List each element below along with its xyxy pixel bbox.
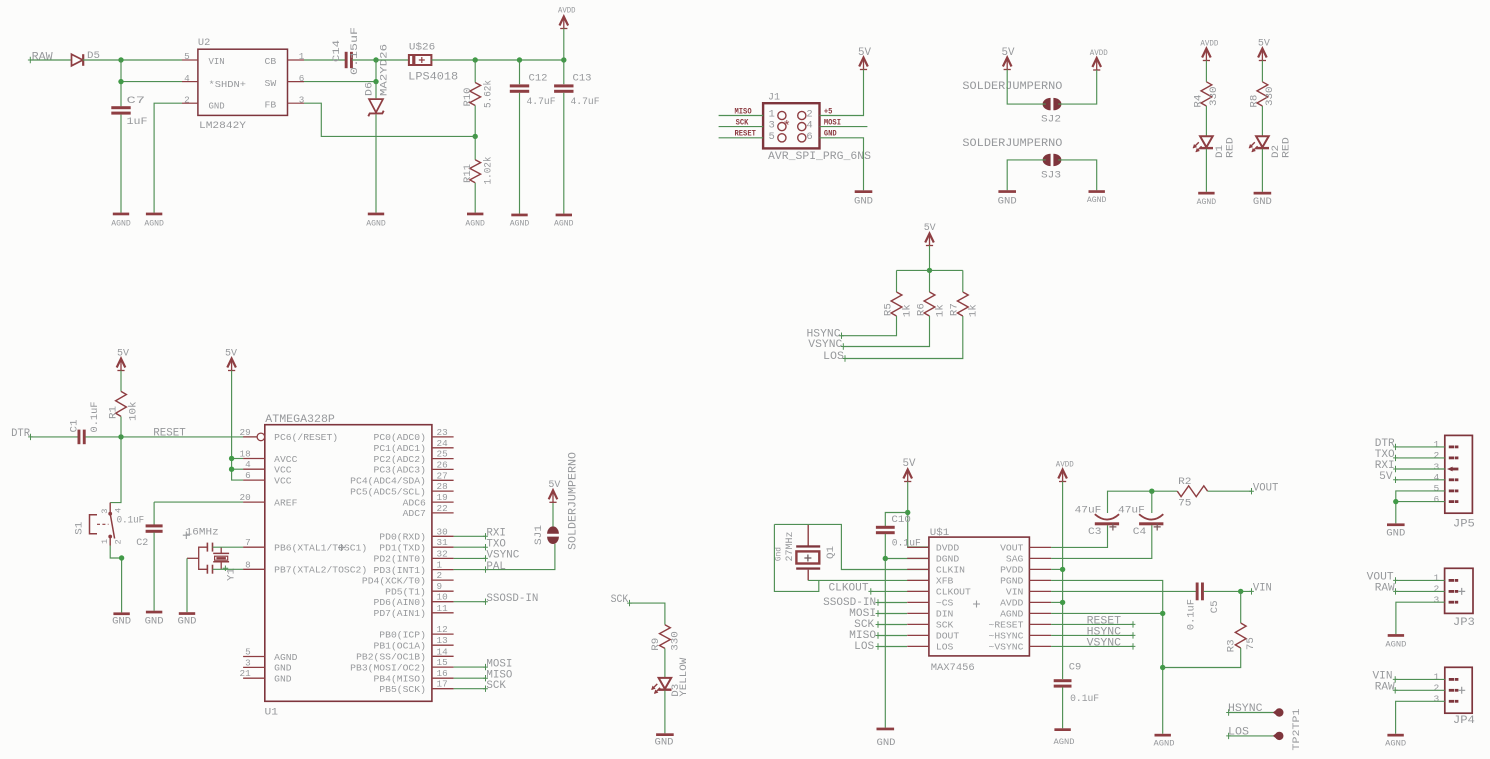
svg-text:1.02k: 1.02k (483, 157, 495, 185)
svg-text:LOS: LOS (936, 642, 954, 653)
svg-text:AGND: AGND (1000, 609, 1024, 620)
U1 pin 11 PD7(AIN1) (432, 612, 454, 614)
resistor R10 5.62k (474, 60, 476, 83)
svg-text:4: 4 (1434, 472, 1440, 483)
resistor R3 75 (1240, 591, 1242, 623)
svg-text:9: 9 (437, 581, 443, 592)
wire AREF to C2 (154, 501, 243, 503)
svg-text:7: 7 (245, 537, 251, 548)
svg-text:R6: R6 (915, 303, 927, 316)
svg-text:GND: GND (998, 196, 1017, 208)
junction DGND node (883, 556, 888, 561)
svg-text:PC5(ADC5/SCL): PC5(ADC5/SCL) (350, 486, 426, 497)
svg-text:AGND: AGND (1385, 739, 1406, 748)
net label SCK at MAX (878, 624, 907, 626)
svg-text:JP5: JP5 (1453, 518, 1475, 530)
svg-text:R10: R10 (462, 88, 474, 107)
JP5 pad 3 (1447, 467, 1453, 472)
svg-text:47uF: 47uF (1118, 505, 1145, 517)
connector JP3 (1445, 568, 1473, 613)
U$1 left pin ~CS (907, 601, 929, 603)
junction PVDD (1060, 567, 1065, 572)
resistor R5 1k (896, 270, 898, 292)
junction at SHDN row (118, 79, 123, 84)
connector JP5 (1445, 435, 1473, 513)
wire HSYNC label row (1051, 634, 1133, 636)
svg-text:0.1uF: 0.1uF (117, 514, 145, 526)
U1 pin 23 PC0(ADC0) (432, 436, 454, 438)
JP5 pad 1 (1449, 446, 1455, 449)
svg-text:VOUT: VOUT (1000, 543, 1024, 554)
capacitor C1 0.1uF (78, 430, 81, 445)
svg-text:4.7uF: 4.7uF (527, 96, 556, 108)
svg-text:SCK: SCK (936, 620, 954, 631)
svg-text:23: 23 (437, 427, 448, 438)
wire Gnd net around Q1 (774, 524, 818, 591)
wire 5V to JP5 pin 4 (1396, 479, 1445, 481)
U$1 left pin XFB (907, 579, 929, 581)
switch S1 wires from RESET node (110, 437, 121, 503)
U1 pin 4 VCC (243, 468, 265, 470)
svg-text:C14: C14 (331, 40, 343, 62)
wire C10 branch (885, 513, 907, 527)
JP3 pad 3 (1449, 601, 1455, 604)
svg-text:19: 19 (437, 492, 448, 503)
svg-text:LOS: LOS (854, 641, 874, 653)
svg-text:VIN: VIN (209, 56, 225, 67)
svg-text:J1: J1 (768, 92, 780, 104)
svg-text:2: 2 (437, 570, 443, 581)
wire TXO to JP5 pin 2 (1396, 457, 1445, 459)
svg-text:0.1uF: 0.1uF (1070, 693, 1099, 705)
svg-text:CB: CB (265, 56, 277, 67)
svg-text:2: 2 (1434, 584, 1440, 595)
svg-text:AGND: AGND (1154, 740, 1175, 749)
svg-text:PAL: PAL (486, 561, 506, 573)
U1 pin 10 PD6(AIN0) (432, 601, 454, 603)
svg-text:R1: R1 (108, 406, 120, 419)
svg-text:R9: R9 (650, 638, 662, 651)
JP5 pad 4 (1449, 478, 1455, 481)
wire SCK to J1 (719, 126, 764, 128)
svg-text:D6: D6 (363, 82, 375, 96)
U1 pin 5 AGND (243, 656, 265, 658)
wire SCK to R9 (630, 603, 665, 625)
svg-text:C7: C7 (127, 95, 146, 107)
svg-text:GND: GND (1386, 528, 1405, 540)
wire SJ3 right to AGND (1058, 160, 1097, 190)
U1 pin 17 PB5(SCK) (432, 688, 454, 690)
U1 pin 31 PD1(TXD) (432, 546, 454, 548)
svg-text:1: 1 (299, 51, 305, 62)
wire C10 to DGND node (885, 534, 929, 559)
svg-text:4: 4 (184, 73, 190, 84)
wire RXI to JP5 pin 3 (1396, 468, 1445, 470)
svg-text:CLKOUT: CLKOUT (829, 583, 869, 595)
svg-text:C9: C9 (1069, 662, 1082, 674)
svg-text:1: 1 (1434, 439, 1440, 450)
U1 pin 20 AREF (243, 501, 265, 503)
wire RAW to JP3 pin 2 (1396, 590, 1445, 592)
svg-text:DGND: DGND (936, 554, 960, 565)
junction at C12 top (517, 57, 522, 62)
svg-text:*: * (783, 120, 791, 135)
resistor R11 1.02k (474, 136, 476, 159)
svg-text:PB5(SCK): PB5(SCK) (379, 684, 426, 695)
U2 pin 5 VIN stub (182, 59, 198, 61)
resistor R7 1k (957, 292, 968, 316)
svg-text:R2: R2 (1178, 476, 1191, 488)
svg-text:3: 3 (245, 657, 251, 668)
svg-text:4: 4 (806, 120, 812, 132)
svg-text:AGND: AGND (1054, 738, 1075, 747)
wire HSYNC to TP2 (1229, 712, 1275, 714)
U$1 left pin SCK (907, 623, 929, 625)
svg-text:SOLDERJUMPERNO: SOLDERJUMPERNO (962, 138, 1062, 150)
ground AGND under U2 GND (146, 213, 162, 216)
ground AGND under D6 (368, 213, 384, 216)
wire LOS to TP1 (1229, 735, 1275, 737)
wire PD3 PAL to SJ1 (454, 544, 555, 570)
JP5 pad 2 (1449, 457, 1455, 460)
wire CB to C14 (304, 59, 346, 61)
svg-text:0.15uF: 0.15uF (349, 27, 361, 75)
svg-text:VCC: VCC (274, 475, 292, 486)
Y1 case pin to GND (187, 557, 199, 559)
svg-text:10: 10 (437, 592, 448, 603)
svg-text:MAX7456: MAX7456 (931, 662, 975, 674)
svg-text:30: 30 (437, 526, 448, 537)
svg-text:RAW: RAW (32, 51, 53, 63)
resistor R9 330 (660, 625, 671, 649)
svg-text:LOS: LOS (823, 351, 844, 363)
U$1 left pin DOUT (907, 634, 929, 636)
resistor R4 330 (1201, 82, 1212, 106)
svg-text:HSYNC: HSYNC (1228, 703, 1263, 715)
svg-text:0.1uF: 0.1uF (1186, 599, 1198, 630)
ground AGND under C7 (113, 213, 129, 216)
svg-text:75: 75 (1178, 497, 1191, 509)
ground AGND under rail (1155, 734, 1171, 737)
svg-text:PC4(ADC4/SDA): PC4(ADC4/SDA) (350, 476, 426, 487)
svg-text:AGND: AGND (1197, 198, 1217, 207)
capacitor C12 4.7uF (519, 60, 521, 84)
svg-text:ADC6: ADC6 (403, 497, 427, 508)
svg-text:1: 1 (100, 539, 110, 544)
svg-text:R7: R7 (949, 303, 961, 316)
svg-text:DVDD: DVDD (936, 543, 960, 554)
wire AVDD to R4 (1205, 61, 1207, 82)
svg-text:5V: 5V (1379, 471, 1393, 483)
svg-text:SW: SW (265, 78, 277, 89)
test point TP1 (1275, 732, 1283, 740)
wire C7 to AGND (120, 115, 122, 213)
wire SW pin to node (304, 60, 376, 82)
U1 pin 1 PD3(INT1) (432, 569, 454, 571)
svg-text:VOUT: VOUT (1253, 483, 1279, 495)
wire VIN pin to C5 (1051, 590, 1196, 592)
svg-text:GND: GND (655, 737, 674, 749)
resistor R6 1k (929, 270, 931, 292)
wire SJ2 right to AVDD (1058, 70, 1097, 104)
svg-text:XFB: XFB (936, 576, 954, 587)
svg-text:MOSI: MOSI (824, 118, 841, 128)
wire C14 to SW node (352, 59, 376, 61)
junction AGND pin (1160, 611, 1165, 616)
ground GND under J1 (855, 190, 873, 193)
svg-text:5.62k: 5.62k (483, 80, 495, 108)
svg-text:Gnd: Gnd (774, 547, 784, 561)
svg-text:6: 6 (245, 470, 251, 481)
switch S1 (109, 503, 111, 514)
svg-text:GND: GND (178, 615, 197, 627)
J1 pad circles (778, 111, 786, 119)
wire U2 GND pin 2 to AGND (154, 103, 182, 212)
junction FB node (473, 134, 478, 139)
capacitor C5 0.1uF (1196, 583, 1199, 601)
op-amp U2 LM2842Y box (198, 49, 288, 115)
svg-text:C10: C10 (891, 514, 911, 526)
svg-text:Y1: Y1 (225, 568, 237, 581)
ground AGND under C12 (511, 214, 527, 217)
test point TP2 (1275, 708, 1283, 716)
svg-text:VSYNC: VSYNC (1087, 638, 1122, 650)
wire J1 GND pin to GND (820, 138, 864, 191)
svg-text:U$26: U$26 (409, 42, 435, 54)
wire R5 to HSYNC (842, 316, 897, 336)
svg-text:AGND: AGND (274, 652, 297, 663)
svg-text:PB1(OC1A): PB1(OC1A) (374, 641, 426, 652)
wire node down to D6 (375, 82, 377, 99)
wire JP5 pins 5 and 6 to GND (1396, 491, 1445, 524)
svg-text:18: 18 (240, 449, 251, 460)
svg-text:10k: 10k (127, 402, 139, 422)
net label SSOSD-IN at MAX (878, 602, 907, 604)
wire DTR to C1 (31, 436, 78, 438)
svg-text:AGND: AGND (554, 219, 574, 228)
svg-text:PB0(ICP): PB0(ICP) (379, 629, 426, 640)
ground AGND under SJ3 (1089, 190, 1105, 193)
wire RAW node down to SHDN row and C7 (120, 60, 122, 106)
svg-text:AVCC: AVCC (274, 454, 297, 465)
svg-text:2: 2 (1434, 683, 1440, 694)
svg-text:1: 1 (1434, 573, 1440, 584)
svg-text:PC0(ADC0): PC0(ADC0) (374, 432, 426, 443)
svg-text:11: 11 (437, 603, 449, 614)
svg-text:6: 6 (1434, 494, 1440, 505)
U$1 left pin LOS (907, 645, 929, 647)
U$1 left pin DGND (907, 557, 929, 559)
svg-text:C1: C1 (69, 420, 81, 433)
solder jumper SJ1 (547, 526, 559, 533)
svg-text:SCK: SCK (486, 680, 506, 692)
U2 pin 1 CB stub (288, 59, 305, 61)
wire VIN to JP4 pin 1 (1395, 678, 1445, 680)
U$1 right pin PVDD (1029, 568, 1051, 570)
svg-text:C13: C13 (573, 73, 592, 85)
svg-text:C5: C5 (1209, 600, 1221, 613)
svg-text:27MHz: 27MHz (784, 532, 796, 562)
svg-text:3: 3 (769, 120, 775, 132)
svg-text:SJ3: SJ3 (1041, 170, 1061, 182)
junction pullup rail center (927, 268, 932, 273)
wire C4 top (1151, 491, 1153, 513)
svg-text:AGND: AGND (144, 219, 164, 228)
svg-text:24: 24 (437, 438, 449, 449)
svg-text:SCK: SCK (611, 594, 629, 606)
U1 pin 6 VCC (243, 479, 265, 481)
JP4 polarity plus (1458, 687, 1465, 694)
svg-text:~HSYNC: ~HSYNC (989, 631, 1024, 642)
svg-text:25: 25 (437, 449, 448, 460)
svg-text:4: 4 (113, 508, 123, 513)
svg-text:1k: 1k (968, 304, 980, 317)
JP3 pad 2 (1449, 590, 1455, 593)
wire VOUT to JP3 pin 1 (1396, 579, 1445, 581)
svg-text:5: 5 (184, 51, 190, 62)
U$1 left pin CLKOUT (907, 590, 929, 592)
LED D1 RED (1200, 136, 1213, 147)
U1 pin 15 PB3(MOSI/OC2) (432, 666, 454, 668)
wire Y1 to XTAL1 pin 7 (213, 546, 244, 548)
wire PVDD pin to AVDD line (1051, 568, 1063, 570)
capacitor C10 0.1uF (876, 526, 895, 529)
svg-text:R11: R11 (462, 164, 474, 183)
svg-text:22: 22 (437, 503, 448, 514)
junction RESET node (118, 434, 123, 439)
svg-text:3: 3 (299, 94, 305, 105)
U1 pin 2 PD4(XCK/T0) (432, 579, 454, 581)
svg-text:AGND: AGND (366, 219, 386, 228)
wire C5 to VIN label (1204, 590, 1252, 592)
U1 pin 32 PD2(INT0) (432, 557, 454, 559)
svg-text:330: 330 (1208, 87, 1220, 107)
svg-text:DOUT: DOUT (936, 631, 960, 642)
wire R6 to VSYNC (843, 316, 929, 347)
junction SW node lower (373, 79, 378, 84)
wire PD0 to RXI label (454, 535, 486, 537)
svg-text:SCK: SCK (736, 118, 749, 128)
wire R2 to VOUT label (1208, 490, 1252, 492)
wire SJ2 left to 5V (1007, 70, 1046, 105)
svg-text:PB7(XTAL2/TOSC2): PB7(XTAL2/TOSC2) (274, 565, 367, 576)
svg-text:3: 3 (1434, 461, 1440, 472)
svg-text:2: 2 (113, 539, 123, 544)
wire PD2 to VSYNC label (454, 557, 486, 559)
wire C1 to RESET node and pin 29 (85, 436, 257, 438)
U$1 left pin CLKIN (907, 568, 929, 570)
svg-text:RED: RED (1281, 137, 1293, 158)
svg-text:TXO: TXO (486, 539, 506, 551)
svg-text:ATMEGA328P: ATMEGA328P (265, 414, 335, 426)
svg-text:0.1uF: 0.1uF (89, 402, 101, 433)
U$1 right pin ~HSYNC (1029, 634, 1051, 636)
wire D2 to GND (1261, 149, 1263, 192)
ground AGND under R11 (467, 213, 483, 216)
wire 5V to R8 (1261, 61, 1263, 82)
JP3 polarity plus (1458, 588, 1465, 595)
U1 pin 8 PB7(XTAL2/TOSC2) (243, 568, 265, 570)
wire AVDD down through PVDD AVDD to C9 (1062, 482, 1064, 680)
svg-text:6: 6 (806, 131, 812, 143)
U$1 origin cross (973, 601, 980, 608)
junction AVDD (1060, 600, 1065, 605)
U$1 right pin ~RESET (1029, 623, 1051, 625)
svg-text:20: 20 (240, 492, 251, 503)
svg-text:VIN: VIN (1253, 583, 1272, 595)
svg-text:4: 4 (245, 459, 251, 470)
svg-text:U$1: U$1 (930, 527, 950, 539)
svg-text:1uF: 1uF (127, 116, 148, 128)
svg-text:PC6(/RESET): PC6(/RESET) (274, 432, 338, 443)
junction under S1 (119, 555, 124, 560)
ground AGND under JP3 (1388, 634, 1404, 637)
svg-text:1k: 1k (934, 304, 946, 317)
svg-text:5: 5 (769, 131, 775, 143)
junction SW node top (373, 57, 378, 62)
svg-text:ADC7: ADC7 (403, 508, 426, 519)
LED D3 YELLOW (659, 678, 672, 689)
svg-text:3: 3 (100, 509, 110, 514)
junction R3 return (1160, 665, 1165, 670)
wire AVDD arrow to rail (563, 29, 565, 61)
svg-text:RESET: RESET (735, 129, 756, 139)
svg-text:AGND: AGND (111, 219, 131, 228)
junction at C13 top (561, 57, 566, 62)
capacitor C13 4.7uF (563, 60, 565, 84)
svg-text:PC1(ADC1): PC1(ADC1) (374, 443, 426, 454)
wire DGND node to GND (884, 559, 886, 728)
svg-text:GND: GND (877, 737, 896, 749)
svg-text:14: 14 (437, 646, 449, 657)
U1 pin 12 PB0(ICP) (432, 633, 454, 635)
svg-text:U1: U1 (265, 707, 279, 719)
svg-text:GND: GND (824, 129, 837, 139)
svg-text:31: 31 (437, 537, 449, 548)
wire PD6 to SSOSD-IN label (454, 601, 486, 603)
wire J1 MOSI stub (820, 126, 868, 128)
wire pullup rail (897, 269, 963, 271)
svg-text:JP3: JP3 (1453, 617, 1475, 629)
JP4 pad 1 (1449, 678, 1455, 681)
U1 pin 14 PB2(SS/OC1B) (432, 655, 454, 657)
wire VOUT pin to C3 (1051, 525, 1107, 547)
svg-text:GND: GND (1253, 196, 1272, 208)
wire JP3 pin 3 to AGND (1396, 602, 1445, 634)
resistor R8 330 (1257, 82, 1268, 106)
svg-text:PC2(ADC2): PC2(ADC2) (374, 454, 426, 465)
U1 pin 29 PC6(/RESET) (243, 436, 257, 438)
U$1 left pin DIN (907, 612, 929, 614)
svg-text:SSOSD-IN: SSOSD-IN (486, 593, 538, 605)
U1 pin 16 PB4(MISO) (432, 677, 454, 679)
svg-text:SJ2: SJ2 (1041, 114, 1061, 126)
wire MISO to J1 (719, 115, 764, 117)
svg-text:26: 26 (437, 459, 448, 470)
connector J1 AVR_SPI_PRG_6NS box (763, 103, 819, 148)
JP5 pad 6 (1449, 500, 1455, 503)
wire D3 to GND (664, 691, 666, 734)
diode D5 (72, 54, 83, 66)
svg-text:R5: R5 (882, 303, 894, 316)
wire D1 to AGND (1205, 149, 1207, 192)
JP4 pad 2 (1449, 689, 1455, 692)
ground AGND under C13 (556, 214, 572, 217)
svg-text:16MHz: 16MHz (186, 527, 219, 539)
svg-text:AGND: AGND (510, 219, 530, 228)
capacitor C7 1uF (111, 106, 130, 109)
ground GND under S1 (113, 612, 129, 615)
